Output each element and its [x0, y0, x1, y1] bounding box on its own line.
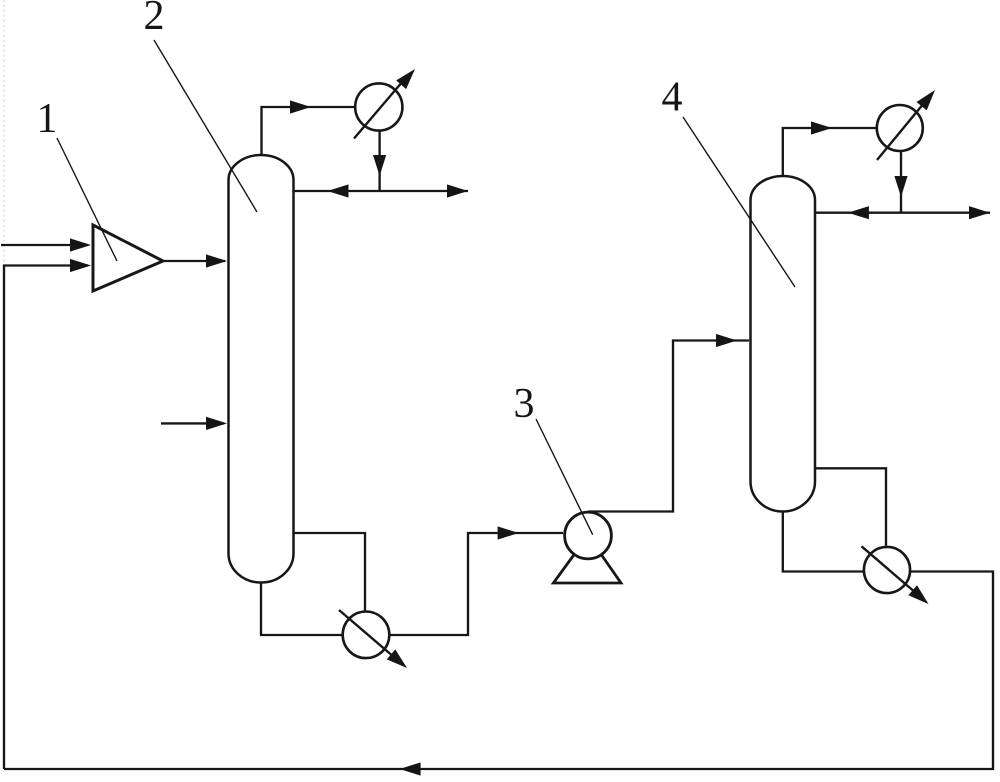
wire: column 4 bottoms recycle to mixer (bottom loop) — [4, 572, 993, 770]
svg-text:1: 1 — [37, 96, 58, 142]
condenser (column 2 overhead exchanger) — [355, 83, 402, 130]
wire: reflux / distillate product line of column 2 — [294, 190, 469, 192]
wire: pump discharge to column 4 feed — [588, 341, 749, 512]
wire: column 2 overhead vapor line to condenser — [262, 107, 355, 156]
svg-text:4: 4 — [662, 75, 683, 121]
pump 3 casing — [565, 512, 612, 559]
label 3 leader line — [536, 419, 593, 535]
wire: side feed arrow into column 2 — [161, 422, 224, 424]
reboiler (column 2 bottoms exchanger) — [343, 612, 390, 659]
pump 3 base — [553, 536, 621, 584]
wire: mixer outlet to column 2 — [163, 260, 225, 262]
condenser (column 4 overhead exchanger) — [877, 105, 923, 151]
label 2 leader line — [154, 40, 257, 212]
svg-text:3: 3 — [514, 381, 535, 427]
label 4 leader line — [683, 117, 795, 287]
wire: column 4 bottoms line to reboiler — [783, 512, 864, 572]
reboiler duty arrow — [339, 610, 398, 661]
svg-text:2: 2 — [144, 0, 165, 39]
reboiler duty arrow — [862, 546, 921, 596]
wire: reboiler outlet to pump 3 — [390, 533, 564, 635]
wire: feed stream 1 into mixer — [1, 244, 88, 246]
wire: condenser outlet down to reflux junction — [378, 131, 380, 191]
wire: reflux / distillate product line of column 4 — [815, 212, 990, 214]
column 4 (vessel) — [751, 176, 816, 512]
wire: condenser outlet down to reflux junction — [900, 151, 902, 213]
condenser duty arrow — [877, 97, 929, 160]
label 1 leader line — [57, 138, 117, 261]
wire: column 4 side draw down to reboiler — [815, 468, 886, 546]
mixer 1 — [93, 225, 163, 291]
reboiler (column 4 bottoms exchanger) — [864, 547, 910, 593]
wire: column 4 overhead vapor line to condenser — [783, 128, 876, 177]
wire: recycle return line (left vertical + into mixer) — [4, 266, 88, 770]
column 2 (vessel) — [229, 155, 294, 583]
wire: column 2 side draw down to reboiler — [294, 533, 366, 611]
faint scan border (left edge dotted) — [3, 0, 5, 264]
wire: column 2 bottoms line to reboiler — [261, 583, 343, 636]
condenser duty arrow — [354, 74, 409, 139]
